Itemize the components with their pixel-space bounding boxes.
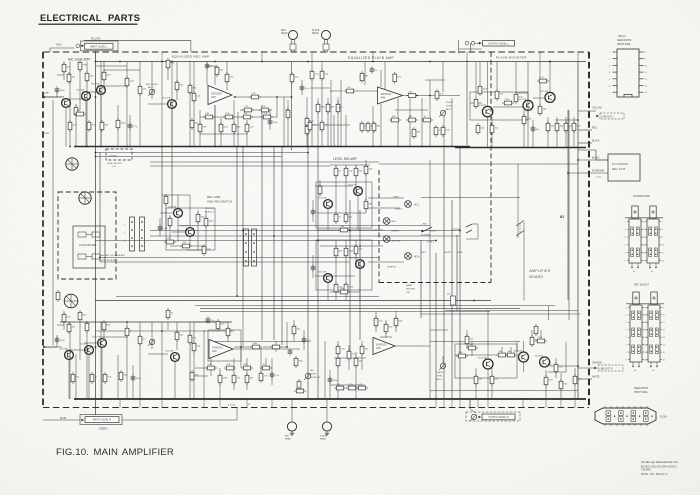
TBA pin left 6 (613, 85, 618, 87)
svg-text:12: 12 (645, 330, 647, 332)
rec select switch B pin tick left 6 (646, 344, 648, 346)
line in R wire (43, 346, 57, 348)
playb amp wire v2 (321, 62, 323, 147)
mic amp wire v15 (171, 62, 173, 147)
rec select switch A pin tick right 1 (642, 307, 644, 309)
mic amp wire v9 (117, 105, 119, 147)
bottom mic amp wire h1 (66, 349, 89, 351)
level ind wire v5 (319, 180, 321, 196)
ground rail junction 6 (214, 146, 216, 148)
booster wire h1 (470, 102, 482, 104)
svg-text:11: 11 (662, 253, 664, 255)
edge connector contact bottom 3 (631, 417, 636, 422)
eq rec amp wire h2 (240, 109, 272, 111)
transistor Q103 (97, 86, 106, 95)
right vertical x569 (568, 110, 570, 320)
rec head symbol (289, 31, 298, 40)
svg-text:OUTPUT LEVEL L: OUTPUT LEVEL L (488, 42, 509, 45)
svg-text:REL 10.3: REL 10.3 (205, 208, 215, 210)
rec head terminal box (290, 44, 296, 50)
level ind wire v2 (345, 165, 347, 213)
bottom right wire h3 (455, 354, 497, 356)
source/tape switch B top bar (643, 217, 663, 219)
rec select switch A body (630, 305, 642, 362)
bottom right wire v5 (442, 356, 444, 363)
mesh junction 16 (567, 172, 569, 174)
svg-text:HEAD: HEAD (320, 438, 326, 441)
output level wire v1 (458, 40, 460, 54)
edge connector tick top 7 (640, 406, 642, 408)
resistor R128 (198, 122, 202, 134)
TBA pin right 13 (639, 85, 644, 87)
resistor R163 (490, 123, 494, 135)
resistor R235 (384, 322, 388, 334)
svg-text:13: 13 (663, 337, 665, 339)
rec select switch A pin tick left 7 (628, 351, 630, 353)
resistor R207 (119, 370, 123, 382)
svg-text:3: 3 (626, 322, 627, 324)
bus junction 6 (329, 398, 331, 400)
svg-text:RETALM DA REL: RETALM DA REL (100, 259, 118, 262)
mic amp wire v3 (69, 62, 71, 147)
q1 emitter wire (65, 108, 67, 147)
level vertical x360 (359, 210, 361, 340)
resistor R241 (505, 353, 517, 357)
relay K3 coil (451, 296, 456, 305)
bottom mic amp wire v7 (100, 322, 102, 399)
bottom secondary rail y390 (430, 390, 578, 392)
svg-text:SACKED ON PLAYB ADJ: SACKED ON PLAYB ADJ (100, 254, 125, 257)
yellow top wire (84, 39, 191, 41)
TBA pin left 5 (613, 78, 618, 80)
svg-text:BC147B: BC147B (57, 97, 65, 99)
mic amp wire v14 (167, 62, 169, 81)
resistor R122 (242, 108, 254, 112)
edge connector contact top 2 (619, 411, 624, 416)
svg-text:BC147B: BC147B (479, 358, 487, 360)
resistor R156 (441, 125, 445, 137)
rec select switch A pin tick right 4 (642, 329, 644, 331)
bus junction 4 (242, 398, 244, 400)
svg-text:DWG. NO. B1147-1: DWG. NO. B1147-1 (641, 472, 668, 476)
resistor R112 (68, 120, 72, 132)
level ind wire h1 (330, 164, 370, 166)
source/tape switch B bottom stub b (655, 263, 657, 267)
level ind wire v15 (365, 198, 367, 213)
rec select switch A contact group r1c1 (632, 311, 635, 320)
rec amp wire v9 (159, 218, 161, 236)
switch vertical x430 (429, 160, 431, 342)
feedback wire (214, 66, 216, 85)
level ind stage loop 2 (316, 240, 372, 290)
bottom right wire v17 (540, 330, 542, 342)
rec select switch A bottom stub a (632, 362, 634, 366)
bottom mic amp wire v11 (139, 322, 141, 399)
resistor R198 (125, 326, 129, 338)
resistor R176 (344, 212, 348, 224)
resistor R151 (406, 118, 418, 122)
svg-text:2: 2 (644, 315, 645, 317)
switch vertical x457 (456, 235, 458, 311)
mid interconnect wire y314 (421, 313, 580, 315)
resistor R210 (216, 319, 220, 331)
TBA pin left 3 (613, 64, 618, 66)
output level wire h1 (459, 48, 482, 50)
ground rail junction 5 (189, 146, 191, 148)
top stub 4 (311, 52, 313, 62)
bottom right wire v16 (531, 330, 533, 342)
ground rail junction 8 (283, 146, 285, 148)
source/tape switch B actuator box (650, 206, 656, 218)
bus stub down 9 (545, 399, 547, 408)
svg-text:220µ: 220µ (273, 122, 279, 124)
bottom mid wire v8 (260, 347, 262, 377)
svg-text:4: 4 (626, 330, 627, 332)
svg-text:BC147B: BC147B (319, 198, 327, 200)
resistor R250 (534, 324, 538, 336)
svg-text:EQUALIZED REC AMP: EQUALIZED REC AMP (172, 55, 209, 59)
opamp3 out wire (233, 348, 300, 350)
resistor R244 (554, 362, 558, 374)
resistor R219 (232, 373, 236, 385)
svg-text:14: 14 (645, 344, 647, 346)
junction j (577, 119, 579, 121)
rec amp wire v4 (177, 218, 179, 243)
svg-text:REC: REC (281, 30, 286, 32)
interconnect wire y225 (178, 225, 430, 227)
bottom mic amp wire v12 (151, 322, 153, 349)
resistor R115 (116, 118, 120, 130)
resistor R209 (56, 290, 60, 302)
eq rec amp wire v14 (287, 100, 289, 147)
rec select switch B pin tick right 7 (660, 351, 662, 353)
bottom mic amp wire v13 (161, 322, 163, 399)
svg-text:SN76131: SN76131 (376, 343, 387, 347)
bus stub down 12 (203, 399, 205, 408)
svg-text:0.1µ: 0.1µ (307, 340, 312, 342)
bottom right wire v3 (395, 311, 397, 332)
eq rec amp wire v4 (220, 118, 222, 147)
rec select switch A pin tick right 5 (642, 336, 644, 338)
svg-text:1: 1 (625, 221, 626, 223)
bus stub down 7 (487, 399, 489, 408)
bottom mid wire v15 (324, 341, 326, 399)
junction a (95, 61, 97, 63)
edge connector tick bottom 1 (604, 424, 606, 426)
mic amp wire v6 (86, 62, 88, 147)
OUTPUT LEVEL R control box (482, 414, 515, 420)
mid rail y152 (95, 152, 308, 154)
mic amp wire h1 (62, 98, 86, 100)
source/tape switch B pin tick right 2 (659, 228, 661, 230)
svg-text:LEVEL: LEVEL (310, 374, 317, 376)
rec head lead a (291, 40, 293, 53)
resistor R179 (338, 228, 350, 232)
resistor R109 (175, 80, 179, 92)
resistor R178 (364, 199, 368, 211)
resistor R186 (164, 194, 168, 206)
bottom right wire v18 (545, 370, 547, 399)
rail junction 3 (214, 61, 216, 63)
bottom mic amp wire v18 (132, 365, 134, 399)
input wire rise (49, 48, 51, 52)
resistor R218 (218, 373, 222, 385)
svg-text:REC LEVEL: REC LEVEL (146, 84, 159, 86)
title underline (39, 24, 138, 25)
level ind wire v4 (365, 160, 367, 200)
resistor R243 (535, 339, 547, 343)
resistor R107 (138, 84, 142, 96)
resistor R141 (326, 102, 330, 114)
edge connector tick top 3 (616, 406, 618, 408)
bus stub down 4 (459, 399, 461, 408)
output level wire v2 (470, 43, 472, 52)
rec amp wire h5 (186, 249, 206, 251)
resistor R142 (336, 102, 340, 114)
svg-text:3: 3 (644, 322, 645, 324)
rail junction 1 (119, 61, 121, 63)
eq rec amp wire v3 (214, 105, 216, 147)
level ind wire h2 (315, 185, 353, 187)
svg-text:DC VOLTAGE: DC VOLTAGE (612, 163, 628, 166)
top stub 5 (372, 52, 374, 62)
booster wire v14 (556, 117, 558, 148)
resistor R173 (354, 166, 358, 178)
op-amp U3 (209, 340, 233, 359)
resistor R143 (308, 120, 312, 132)
transistor Q112 (174, 209, 183, 218)
bottom mic amp wire h6 (57, 324, 64, 326)
interamp vertical x162 (161, 147, 163, 231)
svg-text:+(LEVEL): +(LEVEL) (108, 156, 118, 158)
source/tape switch A bottom dot b (637, 267, 638, 268)
line out L dashed label box (600, 113, 624, 119)
line out wire yellow (578, 110, 596, 112)
bottom mid wire v5 (233, 358, 235, 390)
svg-text:ORANGE: ORANGE (592, 362, 602, 365)
svg-text:SN76131: SN76131 (381, 92, 392, 96)
bottom mid wire v14 (303, 330, 305, 350)
capacitor C109 (311, 264, 316, 271)
playb amp wire v9 (345, 115, 347, 147)
mic amp wire v2 (63, 62, 65, 81)
bottom right wire v20 (555, 358, 557, 378)
svg-text:BC147B: BC147B (93, 337, 101, 339)
source/tape switch B pin tick left 1 (645, 221, 647, 223)
bottom right wire v11 (491, 368, 493, 399)
eq rec amp wire v13 (306, 97, 308, 147)
svg-text:PURPLE: PURPLE (387, 267, 396, 269)
rec select switch B contact group r2c2 (655, 328, 658, 337)
resistor R191 (180, 244, 192, 248)
interamp vertical x262 (261, 105, 263, 340)
svg-text:1: 1 (644, 307, 645, 309)
booster wire v2 (479, 62, 481, 86)
resistor R239 (465, 334, 469, 346)
op-amp U1 (208, 86, 232, 105)
edge connector tick bottom 8 (646, 424, 648, 426)
svg-text:0.1µ: 0.1µ (163, 228, 168, 230)
relay K4 column 2 contact 3 (253, 251, 255, 253)
resistor R125 (223, 115, 235, 119)
input pot circle (76, 44, 80, 48)
rec amp wire v8 (205, 210, 207, 250)
resistor R136 (310, 69, 314, 81)
mic amp ground rail heavy (74, 146, 470, 148)
input level R arrow (81, 419, 84, 422)
capacitor C115 (302, 336, 307, 343)
capacitor C116 (288, 348, 293, 355)
svg-text:PLAYB: PLAYB (312, 29, 320, 32)
svg-text:+12V: +12V (596, 177, 602, 179)
bottom mid wire v4 (227, 322, 229, 342)
resistor R104 (85, 71, 89, 83)
resistor R212 (250, 345, 262, 349)
resistor R153 (412, 127, 416, 139)
resistor R113 (87, 120, 91, 132)
bottom mic amp wire v9 (117, 355, 119, 399)
mesh junction 14 (473, 300, 475, 302)
level ind wire h3 (316, 229, 360, 231)
rec select switch A pin tick left 1 (628, 307, 630, 309)
capacitor C113 (206, 316, 211, 323)
booster wire v3 (487, 62, 489, 107)
TBA pin right 12 (639, 78, 644, 80)
capacitor C102 (128, 122, 133, 129)
svg-text:BC147B: BC147B (60, 349, 68, 351)
bottom mid wire v19 (355, 352, 357, 399)
interconnect wire y236 (150, 235, 460, 237)
switch K2 blade 2 (516, 231, 524, 237)
output level R wire (470, 399, 476, 413)
svg-text:REC AMP: REC AMP (207, 195, 221, 199)
bottom mid wire h6 (195, 375, 208, 377)
ground rail junction 7 (261, 146, 263, 148)
bottom mid wire h4 (195, 367, 211, 369)
resistor R200 (166, 308, 170, 320)
resistor R203 (192, 341, 196, 353)
left vertical x53 (52, 100, 54, 345)
board frame left dashed (42, 52, 44, 408)
input level drop wire (95, 51, 97, 62)
source/tape switch A body (629, 219, 641, 263)
rel head symbol (287, 422, 296, 431)
bottom right wire v4 (429, 342, 431, 400)
capacitor C108 (311, 208, 316, 215)
mid interconnect y166 (150, 165, 330, 167)
bottom right wire v1 (375, 311, 377, 332)
playb booster ground rail heavy (455, 147, 586, 149)
relay K1 contact column 1 (130, 217, 135, 251)
capacitor C114 (270, 371, 275, 378)
TBA pin right 11 (639, 71, 644, 73)
level ind wire h4 (320, 245, 358, 247)
svg-text:FLAG 2.2: FLAG 2.2 (205, 211, 215, 214)
source/tape switch B pin tick left 6 (645, 260, 647, 262)
mesh junction 3 (95, 156, 97, 158)
svg-text:BC147B: BC147B (541, 91, 549, 93)
resistor R217 (260, 366, 272, 370)
transistor Q118 (483, 359, 493, 369)
resistor R242 (530, 335, 534, 347)
svg-text:5: 5 (643, 253, 644, 255)
trimmer PLAYB LEVEL ADJ L (439, 110, 445, 116)
input wire from frame (50, 47, 75, 49)
rail junction 5 (307, 61, 309, 63)
source/tape switch A pin tick left 4 (627, 244, 629, 246)
resistor R160 (502, 101, 514, 105)
bottom right out wire (550, 365, 578, 367)
playb amp wire v14 (409, 98, 411, 147)
resistor R204 (71, 372, 75, 384)
eq rec amp wire v7 (237, 112, 239, 147)
input level outer box (81, 41, 119, 51)
relay column 2 contact 2 (141, 229, 143, 231)
junction h (429, 95, 431, 97)
bottom mic amp wire v8 (103, 322, 105, 340)
bottom right wire v21 (560, 373, 562, 399)
rec amp wire h2 (160, 212, 173, 214)
resistor R182 (354, 244, 358, 256)
bottom mid wire v18 (348, 345, 350, 370)
resistor R130 (232, 122, 236, 134)
svg-text:BLUE: BLUE (458, 252, 464, 254)
bottom mid wire v7 (246, 358, 248, 390)
rotary switch S2 (79, 192, 91, 204)
playb input wire (330, 90, 343, 92)
svg-text:10: 10 (662, 245, 664, 247)
rec select switch A bottom dot b (638, 366, 639, 367)
resistor R184 (344, 282, 348, 294)
svg-text:7: 7 (644, 221, 645, 223)
svg-text:16: 16 (645, 359, 647, 361)
mid vertical x243b (242, 300, 244, 347)
line in R arrow (43, 346, 46, 349)
bottom mic amp wire v1 (56, 335, 58, 347)
interamp vertical x243 (242, 147, 244, 301)
junction k (240, 346, 242, 348)
interamp vertical x237 (236, 147, 238, 297)
resistor R185 (338, 290, 350, 294)
resistor R230 (294, 389, 306, 393)
resistor R197 (102, 320, 106, 332)
svg-text:BC147B: BC147B (92, 84, 100, 86)
svg-text:PLAYB: PLAYB (436, 371, 443, 374)
resistor R105 (102, 70, 106, 82)
rec select switch B bottom stub b (656, 362, 658, 366)
svg-text:100µ: 100µ (136, 378, 142, 380)
bottom right wire h1 (430, 329, 448, 331)
k2 vertical x524 (523, 222, 525, 301)
bottom mid wire v16 (329, 370, 331, 399)
DC voltage reg pcb box (608, 154, 640, 181)
mic amp wire v1 (56, 90, 58, 97)
svg-text:SN76131: SN76131 (211, 92, 222, 96)
edge connector tick top 2 (610, 406, 612, 408)
level ind wire v11 (355, 240, 357, 268)
booster collector wire (549, 62, 551, 93)
bottom mid wire v10 (271, 358, 273, 385)
mic amp wire v12 (151, 62, 153, 100)
junction c (100, 146, 102, 148)
resistor R102 (78, 60, 82, 72)
ground rail junction 12 (397, 146, 399, 148)
svg-text:15: 15 (663, 352, 665, 354)
svg-text:5: 5 (625, 253, 626, 255)
TBA pin left 2 (613, 58, 618, 60)
bottom collector wire (523, 341, 525, 352)
edge connector dot mid 2 (626, 416, 627, 417)
